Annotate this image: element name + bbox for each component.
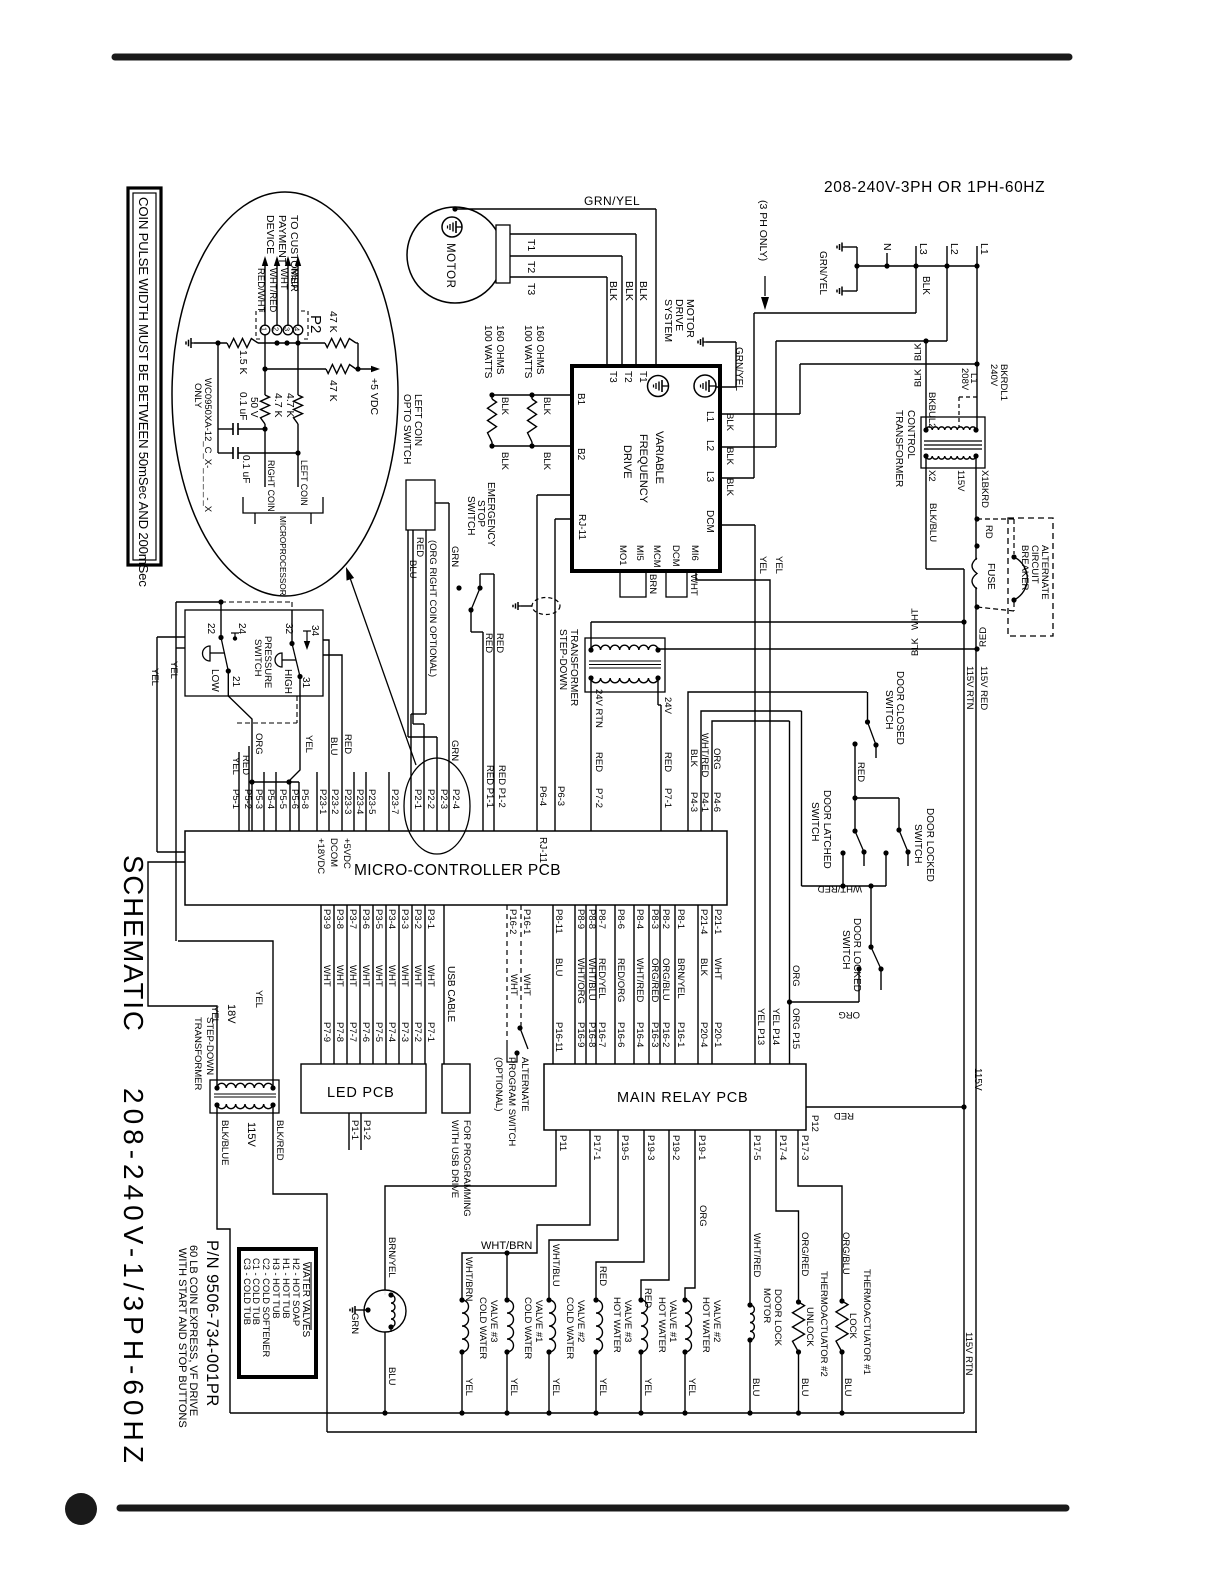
svg-text:P19-1: P19-1 <box>696 1135 707 1160</box>
svg-text:MOTOR: MOTOR <box>444 243 456 289</box>
svg-text:47 K: 47 K <box>327 380 339 402</box>
svg-text:P4-3: P4-3 <box>688 792 699 812</box>
svg-text:BRN: BRN <box>647 574 658 594</box>
svg-text:ORG/BLU: ORG/BLU <box>840 1232 851 1275</box>
svg-text:P6-3: P6-3 <box>555 786 566 806</box>
svg-text:FREQUENCY: FREQUENCY <box>637 434 649 504</box>
svg-text:ORG: ORG <box>838 1009 860 1020</box>
svg-text:P7-1: P7-1 <box>662 788 673 808</box>
svg-text:(ORG RIGHT COIN OPTIONAL): (ORG RIGHT COIN OPTIONAL) <box>427 540 438 677</box>
svg-text:COLD WATER: COLD WATER <box>522 1297 533 1359</box>
svg-text:P3-7: P3-7 <box>347 909 358 929</box>
svg-text:P16-3: P16-3 <box>649 1022 660 1047</box>
svg-text:VALVE #2: VALVE #2 <box>711 1300 722 1342</box>
svg-text:WHT: WHT <box>425 965 436 987</box>
svg-text:ALTERNATE: ALTERNATE <box>1039 545 1050 600</box>
svg-text:WHT/RED: WHT/RED <box>818 883 862 894</box>
svg-text:CONTROL: CONTROL <box>905 410 916 459</box>
svg-text:FUSE: FUSE <box>985 563 996 590</box>
svg-text:4: 4 <box>293 327 302 331</box>
svg-text:P1-2: P1-2 <box>361 1120 372 1140</box>
svg-text:MICRO-CONTROLLER PCB: MICRO-CONTROLLER PCB <box>354 862 561 879</box>
svg-text:TRANSFORMER: TRANSFORMER <box>192 1017 203 1091</box>
svg-text:BLU: BLU <box>407 560 418 579</box>
svg-text:BLK: BLK <box>913 342 924 361</box>
svg-text:ORG/RED: ORG/RED <box>799 1232 810 1276</box>
svg-text:BLK: BLK <box>607 281 619 301</box>
svg-text:P16-2: P16-2 <box>660 1022 671 1047</box>
svg-text:P3-9: P3-9 <box>321 909 332 929</box>
svg-text:FOR PROGRAMMING: FOR PROGRAMMING <box>461 1120 472 1217</box>
svg-text:WHT: WHT <box>712 958 723 980</box>
svg-text:RED/YEL: RED/YEL <box>596 958 607 999</box>
svg-text:WHT: WHT <box>688 574 699 596</box>
svg-text:GRN/YEL: GRN/YEL <box>733 347 744 391</box>
svg-text:L1: L1 <box>978 243 990 255</box>
svg-text:P11: P11 <box>557 1135 568 1151</box>
svg-text:P7-9: P7-9 <box>321 1022 332 1042</box>
svg-text:P2-2: P2-2 <box>425 789 436 809</box>
svg-text:P8-9: P8-9 <box>575 909 586 929</box>
svg-text:P3-3: P3-3 <box>399 909 410 929</box>
svg-text:THERMOACTUATOR #2: THERMOACTUATOR #2 <box>818 1271 829 1377</box>
svg-text:1.5 K: 1.5 K <box>237 350 249 375</box>
svg-text:HOT WATER: HOT WATER <box>700 1297 711 1353</box>
svg-text:P17-3: P17-3 <box>799 1135 810 1160</box>
svg-text:RED: RED <box>342 734 353 754</box>
svg-text:YEL: YEL <box>508 1378 519 1396</box>
svg-text:WHT/RED: WHT/RED <box>751 1233 762 1277</box>
svg-text:VARIABLE: VARIABLE <box>653 431 665 484</box>
svg-text:RED: RED <box>240 755 251 775</box>
svg-text:MI6: MI6 <box>689 545 700 561</box>
svg-text:BLU: BLU <box>750 1378 761 1397</box>
svg-text:P23-7: P23-7 <box>389 789 400 814</box>
svg-text:P5-3: P5-3 <box>253 789 264 809</box>
svg-text:BLK: BLK <box>688 749 699 768</box>
svg-text:WHT: WHT <box>360 965 371 987</box>
svg-text:LOCK: LOCK <box>847 1313 858 1340</box>
svg-text:115V: 115V <box>245 1122 257 1148</box>
svg-text:LOW: LOW <box>209 669 220 692</box>
svg-text:DCM: DCM <box>704 510 715 533</box>
svg-text:P19-5: P19-5 <box>619 1135 630 1160</box>
svg-text:ORG/RED: ORG/RED <box>649 958 660 1002</box>
svg-text:115V: 115V <box>955 470 966 492</box>
svg-text:P2: P2 <box>307 315 324 333</box>
svg-text:DOOR LOCKED: DOOR LOCKED <box>851 918 862 992</box>
svg-text:YEL: YEL <box>230 757 241 775</box>
svg-text:H3 - HOT TUB: H3 - HOT TUB <box>271 1258 281 1319</box>
svg-text:WHT/BRN: WHT/BRN <box>463 1257 474 1301</box>
svg-text:X1BKRD: X1BKRD <box>979 470 990 508</box>
svg-text:P8-4: P8-4 <box>634 909 645 929</box>
svg-text:MAIN RELAY PCB: MAIN RELAY PCB <box>617 1090 749 1106</box>
svg-text:RED: RED <box>597 1266 608 1286</box>
svg-text:P3-1: P3-1 <box>425 909 436 929</box>
svg-text:L3: L3 <box>917 243 929 255</box>
svg-text:RED: RED <box>414 537 425 557</box>
svg-text:RED/WHT: RED/WHT <box>255 268 266 313</box>
svg-text:WHT: WHT <box>347 965 358 987</box>
svg-text:BLK: BLK <box>499 452 510 471</box>
svg-text:YEL: YEL <box>550 1378 561 1396</box>
svg-text:BLK: BLK <box>637 281 649 301</box>
svg-text:HIGH: HIGH <box>282 669 293 694</box>
svg-text:GRN/YEL: GRN/YEL <box>584 194 640 208</box>
svg-text:BREAKER: BREAKER <box>1019 545 1030 591</box>
svg-text:ALTERNATE: ALTERNATE <box>519 1057 530 1112</box>
svg-text:ORG: ORG <box>711 748 722 770</box>
svg-text:CIRCUIT: CIRCUIT <box>1029 545 1040 584</box>
svg-text:1: 1 <box>260 327 269 331</box>
svg-text:USB CABLE: USB CABLE <box>445 966 456 1022</box>
svg-text:RED: RED <box>978 627 989 647</box>
svg-text:LEFT COIN: LEFT COIN <box>412 394 423 446</box>
svg-text:P7-2: P7-2 <box>412 1022 423 1042</box>
svg-text:VALVE #1: VALVE #1 <box>667 1300 678 1342</box>
svg-text:PAYMENT: PAYMENT <box>276 215 288 265</box>
svg-text:31: 31 <box>300 677 311 689</box>
svg-text:GRN/YEL: GRN/YEL <box>817 251 828 295</box>
svg-text:SWITCH: SWITCH <box>840 930 851 969</box>
svg-text:P16-4: P16-4 <box>634 1022 645 1047</box>
svg-text:B1: B1 <box>575 393 586 406</box>
svg-text:THERMOACTUATOR #1: THERMOACTUATOR #1 <box>861 1269 872 1375</box>
svg-text:100 WATTS: 100 WATTS <box>482 325 493 379</box>
svg-text:YEL: YEL <box>463 1378 474 1396</box>
svg-text:115V RED: 115V RED <box>978 666 989 710</box>
svg-text:+5 VDC: +5 VDC <box>368 378 380 415</box>
svg-text:DCM: DCM <box>670 545 681 567</box>
svg-text:47 K: 47 K <box>327 311 339 333</box>
svg-text:ORG: ORG <box>253 733 264 755</box>
svg-text:+18VDC: +18VDC <box>315 838 326 874</box>
svg-text:L3: L3 <box>704 471 715 483</box>
svg-text:DOOR LOCK: DOOR LOCK <box>772 1289 783 1347</box>
svg-text:RED: RED <box>483 633 494 653</box>
svg-text:BLK: BLK <box>724 478 735 497</box>
svg-text:P3-2: P3-2 <box>412 909 423 929</box>
svg-text:B2: B2 <box>575 448 586 461</box>
svg-text:TRANSFORMER: TRANSFORMER <box>568 629 579 706</box>
svg-text:22: 22 <box>205 623 216 635</box>
svg-text:P20-4: P20-4 <box>698 1022 709 1047</box>
svg-text:160 OHMS: 160 OHMS <box>494 325 505 375</box>
svg-text:P17-5: P17-5 <box>751 1135 762 1160</box>
svg-text:BLK: BLK <box>724 447 735 466</box>
svg-text:P8-3: P8-3 <box>649 909 660 929</box>
svg-text:WHT: WHT <box>521 974 532 996</box>
svg-text:P16-11: P16-11 <box>553 1022 564 1052</box>
svg-text:P16-9: P16-9 <box>575 1022 586 1047</box>
svg-text:MCM: MCM <box>651 545 662 568</box>
svg-text:ORG/BLU: ORG/BLU <box>660 958 671 1001</box>
svg-text:BLK: BLK <box>541 452 552 471</box>
svg-text:P3-5: P3-5 <box>373 909 384 929</box>
svg-text:P7-8: P7-8 <box>334 1022 345 1042</box>
svg-text:208-240V-3PH OR 1PH-60HZ: 208-240V-3PH OR 1PH-60HZ <box>824 179 1045 196</box>
svg-text:TO: TO <box>288 215 300 229</box>
svg-text:WHT: WHT <box>412 965 423 987</box>
svg-text:P8-6: P8-6 <box>615 909 626 929</box>
svg-text:LED PCB: LED PCB <box>327 1085 395 1101</box>
svg-text:T1: T1 <box>525 239 537 251</box>
svg-text:WHT: WHT <box>373 965 384 987</box>
svg-text:ORG: ORG <box>697 1205 708 1227</box>
svg-text:MICROPROCESSOR: MICROPROCESSOR <box>278 516 287 596</box>
svg-text:SCHEMATIC: SCHEMATIC <box>118 855 149 1033</box>
svg-text:T2: T2 <box>622 371 633 383</box>
svg-text:P17-1: P17-1 <box>591 1135 602 1160</box>
svg-text:C2 - COLD SOFTENER: C2 - COLD SOFTENER <box>261 1258 271 1357</box>
svg-text:P2-3: P2-3 <box>438 789 449 809</box>
svg-text:+5VDC: +5VDC <box>341 838 352 869</box>
svg-text:DRIVE: DRIVE <box>621 445 633 479</box>
svg-text:RD: RD <box>983 525 994 539</box>
svg-text:L1: L1 <box>968 373 979 384</box>
svg-text:DCOM: DCOM <box>328 838 339 867</box>
svg-text:115V RTN: 115V RTN <box>963 1332 974 1376</box>
svg-text:OPTO SWITCH: OPTO SWITCH <box>401 394 412 464</box>
svg-text:P5-6: P5-6 <box>289 789 300 809</box>
svg-text:P19-2: P19-2 <box>670 1135 681 1160</box>
svg-text:YEL: YEL <box>303 735 314 753</box>
svg-text:240V: 240V <box>988 364 999 387</box>
svg-text:P5-5: P5-5 <box>277 789 288 809</box>
svg-text:RED: RED <box>855 762 866 782</box>
svg-text:T1: T1 <box>637 371 648 383</box>
svg-text:MI5: MI5 <box>634 545 645 561</box>
svg-text:RED: RED <box>289 268 300 288</box>
svg-text:BRN/YEL: BRN/YEL <box>386 1237 397 1278</box>
svg-text:RED/ORG: RED/ORG <box>615 958 626 1002</box>
svg-text:H2 - HOT SOAP: H2 - HOT SOAP <box>291 1258 301 1326</box>
svg-text:STEP-DOWN: STEP-DOWN <box>204 1017 215 1075</box>
svg-text:SYSTEM: SYSTEM <box>662 299 674 342</box>
svg-text:P19-3: P19-3 <box>645 1135 656 1160</box>
svg-text:DOOR CLOSED: DOOR CLOSED <box>894 671 905 745</box>
svg-text:P7-1: P7-1 <box>425 1022 436 1042</box>
svg-text:(OPTIONAL): (OPTIONAL) <box>493 1057 504 1111</box>
svg-text:VALVE #3: VALVE #3 <box>622 1300 633 1342</box>
svg-text:BLU: BLU <box>799 1378 810 1397</box>
svg-text:BLK/BLUE: BLK/BLUE <box>219 1120 230 1165</box>
svg-text:BLK: BLK <box>698 958 709 977</box>
svg-text:DOOR LATCHED: DOOR LATCHED <box>821 790 832 869</box>
svg-text:P23-5: P23-5 <box>366 789 377 814</box>
svg-text:DOOR LOCKED: DOOR LOCKED <box>924 808 935 882</box>
svg-text:GRN: GRN <box>449 740 460 761</box>
svg-text:RED P1-1: RED P1-1 <box>484 765 495 808</box>
svg-text:UNLOCK: UNLOCK <box>804 1307 815 1347</box>
svg-text:BLK: BLK <box>541 397 552 416</box>
svg-text:COLD WATER: COLD WATER <box>477 1297 488 1359</box>
svg-text:RJ-11: RJ-11 <box>537 837 548 863</box>
svg-text:YEL: YEL <box>209 1006 220 1024</box>
svg-text:WHT/ORG: WHT/ORG <box>575 958 586 1004</box>
svg-text:BLK: BLK <box>913 368 924 387</box>
svg-text:P23-3: P23-3 <box>342 789 353 814</box>
svg-text:BLK/BLU: BLK/BLU <box>927 503 938 542</box>
svg-text:GRN: GRN <box>449 546 460 567</box>
svg-text:50 V: 50 V <box>248 397 259 418</box>
svg-text:RED: RED <box>834 1110 854 1121</box>
svg-text:BLU: BLU <box>842 1378 853 1397</box>
svg-text:VALVE #2: VALVE #2 <box>575 1300 586 1342</box>
svg-text:YEL: YEL <box>597 1378 608 1396</box>
svg-text:BLK: BLK <box>724 413 735 432</box>
svg-text:BLK: BLK <box>920 276 931 295</box>
svg-text:SWITCH: SWITCH <box>252 639 263 677</box>
svg-text:TRANSFORMER: TRANSFORMER <box>893 410 904 487</box>
svg-text:0.1 uF: 0.1 uF <box>237 392 248 420</box>
svg-text:H1 - HOT TUB: H1 - HOT TUB <box>281 1258 291 1319</box>
svg-text:WHT: WHT <box>508 974 519 996</box>
svg-text:208-240V-1/3PH-60HZ: 208-240V-1/3PH-60HZ <box>118 1088 149 1468</box>
svg-text:SWITCH: SWITCH <box>465 496 476 535</box>
svg-text:RED: RED <box>662 752 673 772</box>
svg-text:P8-11: P8-11 <box>553 909 564 934</box>
svg-text:0.1 uF: 0.1 uF <box>240 455 251 483</box>
svg-text:P5-4: P5-4 <box>265 789 276 809</box>
svg-text:LEFT COIN: LEFT COIN <box>299 460 309 506</box>
svg-text:MOTOR: MOTOR <box>761 1288 772 1323</box>
svg-text:P16-7: P16-7 <box>596 1022 607 1047</box>
svg-text:P21-4: P21-4 <box>698 909 709 934</box>
svg-text:P6-4: P6-4 <box>537 786 548 806</box>
svg-text:YEL: YEL <box>149 668 160 686</box>
svg-text:P16-1: P16-1 <box>521 909 532 934</box>
svg-text:RIGHT COIN: RIGHT COIN <box>266 460 276 512</box>
svg-text:ORG: ORG <box>790 965 801 987</box>
svg-text:BLU: BLU <box>386 1367 397 1386</box>
svg-text:RED: RED <box>494 633 505 653</box>
svg-text:P8-7: P8-7 <box>596 909 607 929</box>
svg-text:160 OHMS: 160 OHMS <box>534 325 545 375</box>
svg-text:P7-3: P7-3 <box>399 1022 410 1042</box>
svg-text:BLU: BLU <box>328 737 339 756</box>
svg-text:P23-2: P23-2 <box>329 789 340 814</box>
svg-text:YEL: YEL <box>773 556 784 574</box>
svg-text:P3-4: P3-4 <box>386 909 397 929</box>
svg-text:HOT WATER: HOT WATER <box>611 1297 622 1353</box>
svg-text:WHT/RED: WHT/RED <box>634 958 645 1002</box>
svg-text:SWITCH: SWITCH <box>912 824 923 863</box>
svg-text:YEL: YEL <box>686 1378 697 1396</box>
svg-text:WHT: WHT <box>399 965 410 987</box>
svg-text:P17-4: P17-4 <box>777 1135 788 1160</box>
svg-text:WHT/RED: WHT/RED <box>699 733 710 777</box>
svg-text:2: 2 <box>272 327 281 331</box>
svg-text:T2: T2 <box>525 261 537 273</box>
svg-text:YEL: YEL <box>253 990 264 1008</box>
svg-text:P3-8: P3-8 <box>334 909 345 929</box>
svg-text:BRN/YEL: BRN/YEL <box>675 958 686 999</box>
svg-text:ONLY: ONLY <box>192 383 203 409</box>
svg-text:BLK: BLK <box>499 397 510 416</box>
svg-text:COIN PULSE WIDTH MUST BE BETWE: COIN PULSE WIDTH MUST BE BETWEEN 50mSec … <box>136 197 151 587</box>
svg-text:24V RTN: 24V RTN <box>593 689 604 728</box>
svg-text:BLK: BLK <box>910 637 921 656</box>
svg-text:P7-4: P7-4 <box>386 1022 397 1042</box>
svg-text:21: 21 <box>230 676 241 688</box>
svg-text:MO1: MO1 <box>617 545 628 566</box>
svg-text:RED P1-2: RED P1-2 <box>496 765 507 808</box>
svg-text:24V: 24V <box>662 697 673 715</box>
svg-text:WHT/BRN: WHT/BRN <box>481 1240 532 1252</box>
svg-text:VALVE #3: VALVE #3 <box>488 1300 499 1342</box>
svg-text:P16-1: P16-1 <box>675 1022 686 1047</box>
svg-text:(3 PH ONLY): (3 PH ONLY) <box>757 200 769 261</box>
svg-text:STEP-DOWN: STEP-DOWN <box>557 629 568 690</box>
svg-text:P21-1: P21-1 <box>712 909 723 934</box>
svg-text:YEL: YEL <box>642 1378 653 1396</box>
svg-text:YEL P13: YEL P13 <box>755 1008 766 1045</box>
svg-text:WHT: WHT <box>334 965 345 987</box>
svg-text:P2-1: P2-1 <box>412 789 423 809</box>
svg-text:WHT: WHT <box>321 965 332 987</box>
svg-text:ORG P15: ORG P15 <box>790 1008 801 1049</box>
svg-text:BKRDL1: BKRDL1 <box>998 364 1009 401</box>
svg-text:PROGRAM SWITCH: PROGRAM SWITCH <box>506 1057 517 1146</box>
svg-text:BLK: BLK <box>623 281 635 301</box>
svg-text:P5-2: P5-2 <box>242 789 253 809</box>
svg-text:WHT/BLU: WHT/BLU <box>550 1244 561 1287</box>
svg-text:X2: X2 <box>926 470 937 482</box>
svg-text:115V: 115V <box>972 1068 983 1091</box>
svg-text:P7-7: P7-7 <box>347 1022 358 1042</box>
svg-text:BLK/RED: BLK/RED <box>274 1120 285 1161</box>
svg-text:SWITCH: SWITCH <box>883 690 894 729</box>
svg-text:P5-8: P5-8 <box>299 789 310 809</box>
svg-text:RED: RED <box>593 752 604 772</box>
svg-text:WHT: WHT <box>386 965 397 987</box>
svg-text:P23-4: P23-4 <box>354 789 365 814</box>
svg-text:P1-1: P1-1 <box>349 1120 360 1140</box>
svg-text:100 WATTS: 100 WATTS <box>522 325 533 379</box>
svg-text:P4-1: P4-1 <box>699 792 710 812</box>
svg-text:L2: L2 <box>948 243 960 255</box>
svg-text:P4-6: P4-6 <box>711 792 722 812</box>
svg-text:P12: P12 <box>809 1115 820 1132</box>
svg-text:4.7 K: 4.7 K <box>272 393 284 418</box>
svg-text:WITH START AND STOP BUTTONS: WITH START AND STOP BUTTONS <box>176 1248 188 1428</box>
svg-text:WHT: WHT <box>278 268 289 290</box>
svg-text:P/N 9506-734-001PR: P/N 9506-734-001PR <box>203 1240 221 1407</box>
svg-text:3: 3 <box>283 327 292 331</box>
svg-text:P23-1: P23-1 <box>317 789 328 814</box>
svg-text:L1: L1 <box>704 411 715 423</box>
svg-text:HOT WATER: HOT WATER <box>656 1297 667 1353</box>
svg-text:GRN: GRN <box>349 1313 360 1334</box>
svg-text:115V RTN: 115V RTN <box>964 666 975 710</box>
svg-text:P16-6: P16-6 <box>615 1022 626 1047</box>
svg-text:BLU: BLU <box>553 958 564 977</box>
svg-text:C3 - COLD TUB: C3 - COLD TUB <box>242 1258 252 1325</box>
svg-text:P8-2: P8-2 <box>660 909 671 929</box>
svg-text:P16-2: P16-2 <box>507 909 518 934</box>
svg-text:N: N <box>881 243 893 251</box>
svg-text:P8-1: P8-1 <box>675 909 686 929</box>
svg-text:T3: T3 <box>607 371 618 383</box>
svg-text:18V: 18V <box>225 1004 237 1024</box>
svg-text:P3-6: P3-6 <box>360 909 371 929</box>
svg-text:P7-2: P7-2 <box>593 788 604 808</box>
svg-text:P5-1: P5-1 <box>230 789 241 809</box>
svg-text:WHT: WHT <box>910 608 921 630</box>
svg-text:T3: T3 <box>525 283 537 295</box>
